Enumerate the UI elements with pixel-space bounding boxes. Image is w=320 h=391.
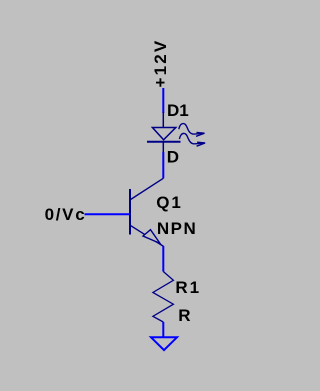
svg-text:NPN: NPN	[157, 219, 197, 238]
wire R1 to ground	[162, 322, 164, 337]
wire Q1 emitter to R1	[162, 246, 164, 272]
wire from +12V to D1 anode	[162, 88, 164, 113]
D1 light arrow 1	[179, 124, 205, 137]
svg-text:Q1: Q1	[156, 193, 183, 212]
wire from D1 cathode to Q1 collector	[162, 152, 164, 178]
D1 anode pin	[162, 112, 164, 128]
svg-text:D1: D1	[167, 101, 189, 120]
svg-text:R1: R1	[175, 278, 201, 297]
Q1 emitter arrow	[143, 230, 160, 244]
Q1 base bar	[129, 189, 131, 235]
D1 cathode bar	[147, 141, 181, 143]
Q1 emitter line	[130, 225, 164, 246]
transistor Q1 (NPN)	[130, 178, 164, 246]
svg-text:0/Vc: 0/Vc	[45, 205, 87, 224]
resistor R1	[153, 272, 174, 323]
ground	[151, 337, 177, 350]
D1 triangle	[152, 128, 175, 140]
D1 cathode pin	[162, 142, 164, 153]
wire base input to Q1 base	[85, 213, 131, 215]
D1 light arrow 2	[179, 133, 205, 146]
Q1 collector line	[130, 178, 164, 200]
svg-text:+12V: +12V	[151, 39, 170, 88]
svg-text:R: R	[178, 306, 190, 325]
LED D1 symbol	[147, 112, 205, 153]
svg-text:D: D	[167, 148, 179, 167]
